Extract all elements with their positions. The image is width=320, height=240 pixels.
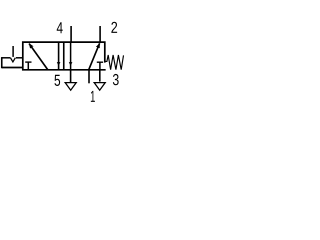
return spring (105, 55, 123, 70)
left box: flow line 2->3 with down arrow (57, 42, 61, 70)
port 5 line (70, 70, 72, 82)
background (0, 0, 128, 128)
pushbutton actuator bracket (2, 57, 23, 68)
left box: blocked port 5 (T symbol) (25, 62, 31, 70)
port label 3 (113, 74, 119, 85)
position divider (63, 42, 65, 70)
port label 2 (111, 22, 117, 33)
port label 4 (57, 22, 63, 33)
right box: flow line 4->5 with down arrow (69, 42, 73, 70)
right box: blocked port 3 (T symbol) (97, 62, 103, 70)
port 1 line (88, 70, 90, 84)
port label 5 (54, 75, 60, 86)
port 3 exhaust triangle (94, 83, 105, 91)
port label 1 (91, 91, 95, 102)
pushbutton press arrow (10, 46, 15, 62)
port 2 stub (99, 26, 101, 42)
left box: flow arrow 1->4 (29, 44, 48, 70)
valve body outline (22, 41, 106, 70)
port 5 exhaust triangle (65, 83, 76, 91)
port 4 stub (70, 26, 72, 42)
port 3 line (99, 70, 101, 82)
right box: flow arrow 1->2 (89, 43, 100, 69)
